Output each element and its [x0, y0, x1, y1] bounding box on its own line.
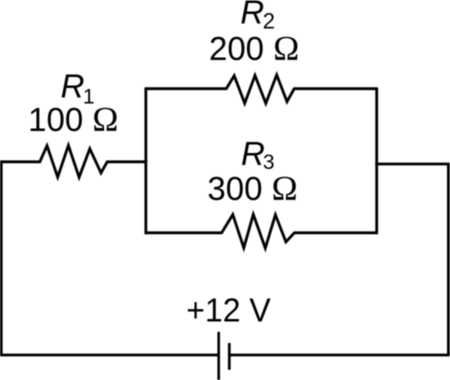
- wire mid-right run and right vertical: [375, 164, 448, 355]
- battery short plate: [228, 343, 231, 370]
- label R1: [61, 67, 95, 108]
- node: parallel box right vertical: [375, 87, 378, 234]
- label R2: [240, 0, 275, 33]
- wire left vertical and bottom-left run: [1, 162, 217, 355]
- svg-text:200 Ω: 200 Ω: [209, 29, 299, 68]
- resistor R3 (bottom branch): [146, 214, 377, 248]
- wire bottom-right run: [229, 354, 449, 357]
- battery long plate: [217, 332, 220, 380]
- svg-text:300 Ω: 300 Ω: [207, 169, 297, 208]
- svg-text:R: R: [61, 67, 85, 104]
- label R3: [241, 135, 275, 174]
- resistor R2 (top branch): [146, 75, 377, 104]
- svg-text:+12 V: +12 V: [186, 292, 271, 329]
- svg-text:R: R: [241, 135, 265, 172]
- node: parallel box left vertical: [144, 87, 147, 234]
- svg-text:R: R: [240, 0, 264, 30]
- resistor R1: [0, 145, 147, 177]
- svg-text:100 Ω: 100 Ω: [28, 100, 118, 139]
